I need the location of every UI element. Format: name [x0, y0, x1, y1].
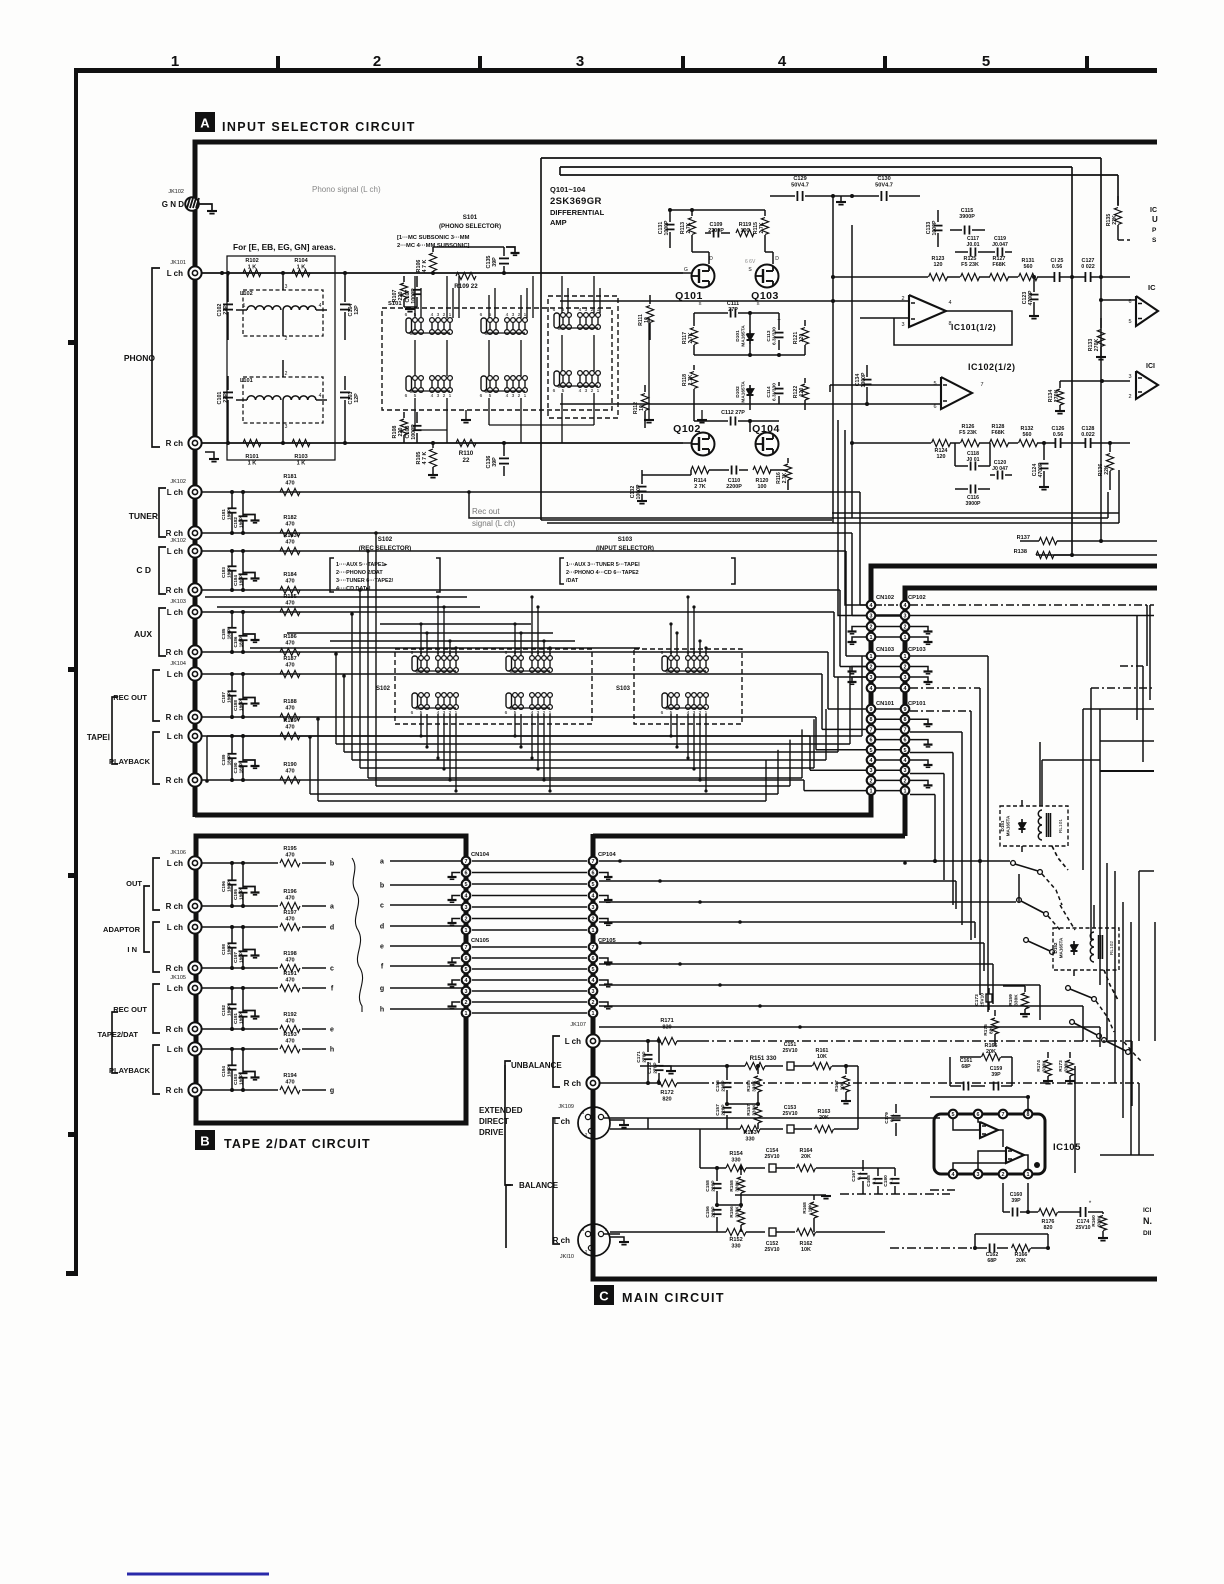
wire CN-CP link y749.8	[876, 749, 900, 751]
connector pin CP104/5 7	[589, 857, 598, 866]
svg-text:F68K: F68K	[992, 262, 1005, 268]
svg-text:C102: C102	[217, 304, 223, 317]
transistor Q102	[692, 433, 715, 456]
svg-text:4: 4	[319, 393, 322, 399]
connector pin CP 1 y790.6	[901, 786, 910, 795]
svg-text:R181: R181	[283, 474, 296, 480]
wire R ch dashdot	[700, 1082, 1139, 1084]
svg-text:25V10: 25V10	[764, 1154, 779, 1160]
svg-text:180P: 180P	[238, 637, 243, 648]
block A bottom border	[195, 566, 1157, 815]
wire letter h	[390, 1008, 464, 1010]
svg-text:2: 2	[465, 917, 468, 923]
svg-text:1: 1	[870, 789, 873, 795]
wire diff box bottom	[541, 519, 832, 521]
svg-text:C: C	[665, 706, 669, 712]
svg-text:470: 470	[285, 724, 294, 730]
jack JK104 y674	[188, 667, 201, 680]
for-areas box	[227, 256, 335, 460]
wire R182 drop	[851, 533, 853, 616]
svg-text:C188: C188	[233, 700, 238, 711]
transistor Q103	[756, 265, 779, 288]
svg-text:25V10: 25V10	[764, 1247, 779, 1253]
svg-text:1: 1	[524, 312, 527, 318]
svg-text:C126: C126	[1052, 426, 1065, 432]
svg-text:C182: C182	[233, 517, 238, 528]
gnd hooks CP104 inner	[599, 873, 608, 878]
dashdot bottom rows	[930, 1189, 955, 1191]
svg-text:4700P: 4700P	[1028, 290, 1034, 306]
jack R ch y1090	[188, 1083, 201, 1096]
wire bus y922	[599, 921, 975, 923]
ruler tick 2-3	[478, 56, 482, 73]
svg-text:5: 5	[933, 381, 936, 387]
svg-text:F5 23K: F5 23K	[959, 430, 977, 436]
svg-text:2: 2	[285, 371, 288, 377]
svg-text:6 6V: 6 6V	[745, 259, 756, 265]
capacitor C193 180P	[242, 1049, 244, 1073]
connector pin CN 2 y626.5	[867, 622, 876, 631]
svg-text:R188: R188	[283, 699, 296, 705]
svg-text:6: 6	[661, 710, 664, 716]
wire q2 row	[683, 442, 691, 444]
svg-text:5: 5	[952, 1112, 955, 1118]
svg-text:6: 6	[480, 393, 483, 399]
svg-text:R155: R155	[746, 1080, 752, 1092]
IC105 pin 3	[974, 1170, 983, 1179]
svg-text:MA165TA: MA165TA	[741, 325, 747, 347]
connector pin CN104/5 1	[462, 1009, 471, 1018]
svg-text:R173: R173	[1058, 1060, 1064, 1072]
tape2 REC OUT bracket	[153, 984, 160, 1033]
svg-text:3: 3	[870, 768, 873, 774]
svg-text:R ch: R ch	[166, 776, 183, 785]
svg-text:MA165TA: MA165TA	[1005, 815, 1010, 836]
svg-text:CI 25: CI 25	[1051, 258, 1064, 264]
wire R196 row	[202, 905, 278, 907]
svg-text:3: 3	[977, 1172, 980, 1178]
svg-text:6: 6	[505, 710, 508, 716]
svg-text:20K: 20K	[986, 1049, 996, 1055]
svg-text:820: 820	[662, 1096, 671, 1102]
svg-text:3: 3	[512, 393, 515, 399]
gnd on y196 rail	[840, 196, 842, 201]
svg-text:(INPUT SELECTOR): (INPUT SELECTOR)	[596, 545, 654, 552]
wire R190 drop	[803, 780, 805, 791]
right vertical wires	[1082, 709, 1084, 870]
wire R182 row	[202, 532, 852, 534]
svg-text:R167: R167	[834, 1080, 840, 1092]
svg-text:4: 4	[579, 307, 582, 313]
svg-text:C: C	[484, 331, 488, 337]
wire CN-CP link y615.5	[876, 614, 900, 616]
svg-text:8: 8	[1027, 1112, 1030, 1118]
svg-text:2···MC 4···MM S: 2···MC 4···MM SUBSONIC]	[397, 243, 470, 249]
svg-text:2: 2	[870, 625, 873, 631]
svg-text:0.56: 0.56	[1052, 264, 1063, 270]
svg-text:C127: C127	[1082, 258, 1095, 264]
capacitor C183 180P	[231, 551, 233, 566]
svg-text:a: a	[380, 859, 384, 866]
wire CN-CP link y688	[876, 687, 900, 689]
svg-text:2: 2	[904, 778, 907, 784]
svg-text:1: 1	[904, 635, 907, 641]
svg-text:470: 470	[285, 895, 294, 901]
switch sw2c	[1102, 1038, 1107, 1043]
svg-text:220P: 220P	[721, 1080, 727, 1092]
svg-text:ICI: ICI	[1143, 1207, 1152, 1214]
svg-text:10K: 10K	[801, 1247, 811, 1253]
svg-text:L ch: L ch	[167, 1045, 183, 1054]
svg-text:R183: R183	[283, 533, 296, 539]
connector pin CN104/5 4	[462, 976, 471, 985]
svg-text:C191: C191	[233, 1013, 238, 1024]
block B badge	[195, 1130, 215, 1150]
CD group bracket	[159, 547, 166, 594]
IC105 pin 7	[999, 1110, 1008, 1119]
svg-text:3: 3	[870, 614, 873, 620]
wire r161-r163 link	[857, 1066, 859, 1129]
svg-text:180P: 180P	[226, 1005, 231, 1016]
connector pin CP104/5 5	[589, 880, 598, 889]
svg-text:1: 1	[904, 654, 907, 660]
svg-text:d: d	[330, 925, 334, 932]
S101 bottom wiring	[414, 398, 416, 430]
svg-text:R ch: R ch	[166, 648, 183, 657]
svg-text:2: 2	[904, 665, 907, 671]
right horizontal stubs	[1083, 708, 1154, 710]
svg-text:C194: C194	[221, 1066, 226, 1077]
connector pin CP104/5 1	[589, 926, 598, 935]
svg-text:C192: C192	[221, 1005, 226, 1016]
svg-text:6: 6	[592, 871, 595, 877]
svg-text:180P: 180P	[226, 692, 231, 703]
svg-text:6: 6	[553, 307, 556, 313]
svg-text:R101: R101	[245, 454, 258, 460]
switch group S101a	[406, 318, 412, 333]
jack JK107 R ch	[586, 1076, 599, 1089]
svg-text:F68K: F68K	[991, 430, 1004, 436]
wire R184 row	[202, 589, 840, 591]
wire q source join	[694, 312, 714, 314]
svg-text:3: 3	[870, 675, 873, 681]
wire r154 row	[700, 1167, 726, 1169]
svg-text:L ch: L ch	[167, 488, 183, 497]
svg-text:R166: R166	[1015, 1252, 1028, 1258]
svg-text:R ch: R ch	[166, 439, 183, 448]
svg-text:C114: C114	[766, 386, 772, 398]
wire diffamp verticals	[832, 196, 834, 523]
TAPE1 REC OUT bracket	[153, 670, 160, 721]
svg-text:R159: R159	[1008, 994, 1014, 1006]
PHONO group bracket	[152, 268, 160, 447]
svg-text:CN101: CN101	[876, 701, 895, 707]
svg-text:D151: D151	[1000, 820, 1005, 831]
svg-text:Q101~104: Q101~104	[550, 185, 586, 194]
svg-text:h: h	[380, 1007, 384, 1014]
svg-text:5: 5	[1128, 319, 1131, 325]
block A border	[195, 142, 1157, 817]
svg-text:39P: 39P	[1011, 1198, 1021, 1204]
wire r151 row	[640, 1065, 745, 1067]
svg-text:5: 5	[904, 748, 907, 754]
svg-text:3: 3	[904, 675, 907, 681]
svg-text:0.022: 0.022	[1081, 432, 1095, 438]
svg-text:R171: R171	[660, 1018, 673, 1024]
svg-text:470: 470	[285, 852, 294, 858]
svg-text:50V4.7: 50V4.7	[875, 182, 893, 188]
block C left border	[593, 834, 1157, 1279]
svg-text:7: 7	[465, 859, 468, 865]
wire maze loop y744	[336, 743, 850, 745]
svg-text:1: 1	[597, 307, 600, 313]
svg-text:180P: 180P	[226, 944, 231, 955]
svg-text:270P: 270P	[642, 1051, 648, 1063]
svg-text:2: 2	[591, 307, 594, 313]
connector pin CN 4 y605	[867, 601, 876, 610]
connector pin CN 1 y637	[867, 633, 876, 642]
svg-text:S103: S103	[618, 536, 633, 543]
wire maze above S102	[205, 596, 467, 598]
svg-text:C156: C156	[705, 1206, 711, 1218]
wire CN-CP y1013	[472, 1012, 587, 1014]
capacitor C196 180P	[231, 863, 233, 880]
extra right verticals	[1106, 863, 1108, 1041]
wire bus y943	[599, 942, 984, 944]
svg-text:470: 470	[285, 1079, 294, 1085]
connector pin CN 5 y749.8	[867, 746, 876, 755]
svg-text:6: 6	[411, 650, 414, 656]
svg-text:1····AUX 5···TAPE1▸: 1····AUX 5···TAPE1▸	[336, 562, 387, 568]
svg-text:C: C	[599, 1289, 609, 1304]
svg-text:JK102: JK102	[168, 189, 184, 195]
svg-text:3····TUNER 6···TAPE2/: 3····TUNER 6···TAPE2/	[336, 578, 394, 584]
svg-text:470: 470	[285, 1018, 294, 1024]
jack R ch y780	[188, 773, 201, 786]
jack JK105 y988	[188, 981, 201, 994]
svg-text:7: 7	[980, 382, 983, 388]
switch group S102d	[506, 693, 512, 708]
wire CN-CP y1002	[472, 1001, 587, 1003]
svg-text:R160: R160	[1091, 1215, 1097, 1227]
wire maze loop y786	[376, 785, 790, 787]
svg-text:L102: L102	[240, 291, 253, 297]
switch group S102a	[412, 656, 418, 671]
capacitor C152 25V10	[769, 1228, 776, 1236]
connector pin CN104/5 2	[462, 998, 471, 1007]
svg-text:4: 4	[904, 686, 907, 692]
wire CN-CP link y729.4	[876, 728, 900, 730]
gnd hook b pair	[243, 1011, 255, 1017]
svg-text:REC OUT: REC OUT	[113, 1005, 147, 1014]
wire letter e	[390, 945, 464, 947]
svg-text:3: 3	[576, 53, 584, 70]
svg-text:INPUT SELECTOR CIRCUIT: INPUT SELECTOR CIRCUIT	[222, 120, 416, 134]
svg-text:R ch: R ch	[166, 1086, 183, 1095]
wire letter c	[390, 904, 464, 906]
page left border	[74, 68, 78, 1276]
svg-text:220P: 220P	[711, 1206, 717, 1218]
connector pin CN 6 y739.6	[867, 735, 876, 744]
svg-text:2: 2	[518, 312, 521, 318]
svg-text:470: 470	[285, 600, 294, 606]
wire CN-CP y907	[472, 906, 587, 908]
svg-text:25V10: 25V10	[1075, 1225, 1090, 1231]
jack JK110 XLR	[578, 1224, 610, 1256]
switch group S101c	[554, 313, 560, 328]
svg-text:1000P: 1000P	[664, 220, 670, 236]
switch group S102c	[412, 693, 418, 708]
svg-text:C136: C136	[486, 456, 492, 469]
svg-text:IC: IC	[1150, 207, 1157, 214]
svg-text:P: P	[1152, 227, 1157, 234]
connector pin CN 7 y729.4	[867, 725, 876, 734]
ruler tick 4-5	[883, 56, 887, 73]
wire R186 drop	[827, 652, 829, 709]
connector pin CP104/5 6	[589, 868, 598, 877]
svg-text:AUX: AUX	[134, 629, 152, 639]
wire CN-CP link y760	[876, 759, 900, 761]
svg-text:20K: 20K	[801, 1154, 811, 1160]
svg-text:R189: R189	[283, 718, 296, 724]
svg-text:C129: C129	[793, 176, 806, 182]
svg-text:C190: C190	[233, 762, 238, 773]
jack R ch y652	[188, 645, 201, 658]
svg-text:DRIVE: DRIVE	[479, 1128, 504, 1137]
svg-text:L ch: L ch	[167, 608, 183, 617]
svg-text:DII: DII	[1143, 1230, 1152, 1237]
svg-text:C187: C187	[221, 692, 226, 703]
connector pin CP 6 y739.6	[901, 735, 910, 744]
svg-text:REC OUT: REC OUT	[113, 693, 147, 702]
wire CN-CP y947	[472, 946, 587, 948]
svg-text:1: 1	[1027, 1172, 1030, 1178]
connector pin CN104/5 7	[462, 857, 471, 866]
svg-text:4: 4	[431, 312, 434, 318]
connector pin CP 7 y729.4	[901, 725, 910, 734]
wire maze loop y760	[352, 759, 826, 761]
svg-text:R152: R152	[729, 1237, 742, 1243]
svg-text:C110: C110	[728, 478, 741, 484]
svg-text:6: 6	[405, 312, 408, 318]
svg-text:R108: R108	[392, 426, 398, 439]
svg-text:R190: R190	[283, 762, 296, 768]
feedback loop IC101	[894, 311, 1012, 345]
svg-text:F5 23K: F5 23K	[961, 262, 979, 268]
svg-text:CN105: CN105	[471, 938, 490, 944]
svg-text:1: 1	[870, 635, 873, 641]
svg-text:R157: R157	[746, 1104, 752, 1116]
TAPE1 outer bracket	[112, 697, 118, 764]
gnd stub r107	[404, 306, 417, 308]
svg-text:For [E, EB, EG, GN] areas.: For [E, EB, EG, GN] areas.	[233, 242, 336, 252]
wire R183 row	[202, 550, 846, 552]
svg-text:180P: 180P	[238, 952, 243, 963]
page ruler top border	[75, 68, 1157, 73]
block B border	[196, 836, 466, 1123]
capacitor C116 3900P	[970, 485, 972, 494]
svg-text:R161: R161	[816, 1048, 829, 1054]
TUNER group bracket	[159, 488, 166, 537]
svg-text:4: 4	[506, 393, 509, 399]
svg-text:4: 4	[870, 603, 873, 609]
svg-text:J0.047: J0.047	[992, 242, 1008, 248]
svg-text:470: 470	[285, 480, 294, 486]
opamp IC101 second at edge	[1136, 296, 1158, 326]
svg-text:C180: C180	[883, 1175, 889, 1187]
svg-text:R198: R198	[283, 951, 296, 957]
r168 gnd hook	[814, 1194, 826, 1196]
svg-text:6: 6	[505, 650, 508, 656]
switch dashes right	[1042, 874, 1062, 905]
jack L ch y927	[188, 920, 201, 933]
connector pin CN 1 y790.6	[867, 786, 876, 795]
svg-text:5: 5	[870, 748, 873, 754]
svg-text:L ch: L ch	[167, 859, 183, 868]
svg-text:ICI: ICI	[1146, 363, 1155, 370]
switch group S101d	[406, 376, 412, 391]
S102 dashed box	[395, 649, 592, 724]
svg-text:R110: R110	[459, 450, 474, 457]
svg-text:180P: 180P	[238, 575, 243, 586]
svg-text:470: 470	[285, 957, 294, 963]
IC105 pin 1	[1024, 1170, 1033, 1179]
capacitor C194 180P	[231, 1049, 233, 1065]
wire bus y985	[599, 984, 1040, 986]
svg-text:g: g	[330, 1088, 334, 1095]
svg-text:470: 470	[285, 662, 294, 668]
connector pin CP 1 y656	[901, 652, 910, 661]
svg-text:180P: 180P	[226, 567, 231, 578]
IC105 internal wires	[953, 1119, 980, 1130]
svg-text:JK103: JK103	[170, 599, 186, 605]
wire c167 rail	[835, 1167, 895, 1169]
wire phono L ch	[202, 272, 683, 274]
svg-text:4: 4	[319, 303, 322, 309]
wire r152 row	[610, 1231, 726, 1233]
svg-text:S103: S103	[616, 686, 631, 692]
svg-text:JK101: JK101	[170, 260, 186, 266]
svg-text:R114: R114	[694, 478, 707, 484]
wire jk109 pin1	[604, 1117, 648, 1119]
svg-text:R ch: R ch	[166, 902, 183, 911]
wire letter d	[390, 925, 464, 927]
connector pin CP 2 y626.5	[901, 622, 910, 631]
svg-text:U: U	[1152, 215, 1158, 224]
svg-text:C189: C189	[221, 754, 226, 765]
svg-text:180P: 180P	[238, 889, 243, 900]
svg-text:2: 2	[465, 1000, 468, 1006]
wire L ch dashdot	[700, 1040, 1132, 1042]
svg-text:C135: C135	[486, 256, 492, 269]
wire bus corner x1100	[1099, 1027, 1101, 1047]
svg-text:TUNER: TUNER	[129, 511, 158, 521]
transistor Q101	[692, 265, 715, 288]
svg-text:C: C	[557, 326, 561, 332]
capacitor C188 180P	[242, 674, 244, 699]
svg-text:CN104: CN104	[471, 852, 490, 858]
svg-text:12P: 12P	[354, 305, 360, 315]
svg-text:R186: R186	[283, 634, 296, 640]
svg-text:1: 1	[465, 928, 468, 934]
svg-text:R104: R104	[294, 258, 308, 264]
wire R189 drop	[809, 736, 811, 770]
svg-text:C111: C111	[727, 301, 739, 307]
connector pin CP104/5 4	[589, 891, 598, 900]
opamp IC102 half1	[941, 377, 972, 409]
wire CN-CP y991	[472, 990, 587, 992]
relay RL102	[1053, 928, 1119, 970]
